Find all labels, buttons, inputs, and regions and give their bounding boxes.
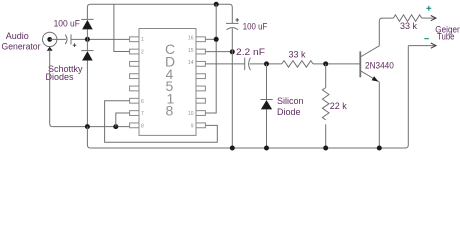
- label 100 uF (C1): [54, 19, 81, 29]
- junction dot diode column on inner rail: [85, 124, 90, 129]
- schottky diode D1 (upper) triangle: [82, 20, 93, 30]
- svg-text:8: 8: [141, 124, 144, 130]
- svg-text:Diode: Diode: [277, 107, 301, 117]
- svg-text:100 uF: 100 uF: [54, 19, 81, 29]
- junction dot top rail: [214, 2, 219, 7]
- label 2N3440: [365, 61, 394, 71]
- wire D2 anode down to inner ground rail: [86, 61, 88, 127]
- node C junction dot: [323, 61, 328, 66]
- svg-text:2.2 nF: 2.2 nF: [236, 47, 266, 57]
- svg-text:7: 7: [141, 111, 144, 117]
- wire minus output arrow: [408, 45, 435, 47]
- svg-text:Audio: Audio: [6, 31, 29, 41]
- resistor R1 33k zigzag: [282, 61, 313, 68]
- wire C3 to node B: [250, 63, 282, 65]
- svg-text:Tube: Tube: [437, 32, 455, 42]
- IC U1 designator text CD4518: [165, 41, 175, 119]
- IC U1 CD4518 body: [139, 29, 196, 136]
- minus output arrowhead: [431, 43, 436, 48]
- wire generator to C1: [50, 38, 66, 40]
- wire D3 anode to ground rail: [266, 109, 268, 148]
- junction dot pin7 drop on inner rail: [113, 124, 118, 129]
- wire pin 14 to C3: [205, 63, 244, 65]
- wire generator ground down: [50, 50, 53, 127]
- plus sign output (teal): [426, 6, 431, 11]
- wire R3 to plus output arrow: [422, 17, 436, 19]
- transistor Q1 emitter arrowhead: [372, 76, 379, 81]
- label Silicon Diode: [277, 96, 304, 117]
- svg-text:14: 14: [188, 60, 194, 66]
- resistor R3 33k zigzag: [393, 15, 421, 22]
- wire inner ground rail to pin 8: [53, 126, 130, 128]
- generator center terminal dot: [47, 37, 52, 42]
- svg-text:16: 16: [188, 36, 194, 42]
- label 22 k (R2): [330, 101, 348, 111]
- junction dot R2 on ground rail: [323, 146, 328, 151]
- wire emitter down to ground rail: [378, 82, 380, 148]
- junction dot pin15 reset: [230, 49, 235, 54]
- svg-text:2N3440: 2N3440: [365, 61, 394, 71]
- svg-text:6: 6: [141, 99, 144, 105]
- wire C1 to node A and pin1: [71, 38, 130, 40]
- svg-text:Silicon: Silicon: [277, 96, 304, 106]
- capacitor C1 100uF straight plate: [70, 34, 72, 44]
- label Geiger Tube: [435, 25, 459, 42]
- capacitor C3 2.2nF straight plate: [244, 58, 246, 70]
- transistor Q1 emitter stroke: [360, 71, 379, 82]
- wire R1 to node C and base: [313, 63, 360, 65]
- silicon diode D3 cathode bar: [261, 99, 273, 101]
- transistor Q1 base bar: [359, 51, 361, 77]
- wire collector up to R3: [379, 18, 393, 46]
- svg-text:10: 10: [188, 111, 194, 117]
- label 2.2 nF: [236, 47, 266, 57]
- svg-text:15: 15: [188, 48, 194, 54]
- capacitor C3 2.2nF curved plate: [249, 58, 251, 70]
- audio generator connector J1: [43, 32, 57, 46]
- wire pin 16 to V+ drop: [205, 38, 216, 40]
- silicon diode D3 triangle: [261, 100, 272, 109]
- IC U1 left pins 1-8: [130, 37, 139, 128]
- svg-text:9: 9: [191, 124, 194, 130]
- wire diode column to outer ground rail: [87, 127, 90, 148]
- pin number labels left: [141, 37, 144, 129]
- svg-text:1: 1: [141, 37, 144, 43]
- IC U1 right pins 16-9: [196, 37, 205, 128]
- capacitor C1 100uF curved plate: [65, 35, 67, 44]
- wire R2 to ground rail: [325, 124, 327, 148]
- pin number labels right: [188, 36, 194, 130]
- node B junction dot: [264, 61, 269, 66]
- resistor R2 22k lead from node C: [325, 64, 327, 88]
- capacitor C2 plus sign: [235, 18, 239, 22]
- label 100 uF (C2): [243, 22, 268, 32]
- junction dot emitter on ground rail: [377, 146, 382, 151]
- label 33 k (R3): [400, 21, 418, 31]
- wire D1 anode to node A to D2: [86, 29, 88, 50]
- wire VDD drop to pin 2: [114, 4, 130, 51]
- svg-text:Generator: Generator: [2, 42, 41, 52]
- capacitor C2 100uF curved plate: [227, 28, 239, 30]
- schottky diode D2 (lower) cathode bar: [81, 50, 93, 52]
- junction dot D3 on ground rail: [264, 146, 269, 151]
- resistor R2 22k zigzag: [322, 88, 329, 120]
- schottky diode D2 (lower) triangle: [82, 51, 93, 60]
- schottky diode D1 (upper) cathode bar: [81, 18, 93, 20]
- generator ground arrow: [47, 47, 53, 51]
- wire pin 7 to inner rail: [116, 113, 130, 127]
- wire C2 bottom to outer ground rail: [231, 28, 233, 148]
- label 33 k (R1): [289, 50, 307, 60]
- wire top rail V+: [87, 4, 232, 23]
- label Audio Generator: [2, 31, 41, 52]
- plus output arrowhead: [431, 16, 436, 21]
- wire V+ drop to pin 10: [205, 4, 216, 113]
- silicon diode D3 lead from node B: [266, 64, 268, 100]
- label Schottky Diodes: [46, 64, 84, 82]
- svg-text:2: 2: [141, 50, 144, 56]
- transistor Q1 collector stroke: [360, 46, 379, 57]
- wire pin 15 to ground column: [205, 51, 232, 53]
- capacitor C2 100uF straight plate: [226, 22, 239, 24]
- svg-text:33 k: 33 k: [400, 21, 418, 31]
- minus sign output (teal): [424, 38, 429, 40]
- node A junction dot: [85, 37, 90, 42]
- svg-text:33 k: 33 k: [289, 50, 307, 60]
- junction dot ground column on rail: [230, 146, 235, 151]
- svg-text:22 k: 22 k: [330, 101, 348, 111]
- svg-text:100 uF: 100 uF: [243, 22, 268, 32]
- svg-text:8: 8: [166, 103, 174, 119]
- capacitor C1 plus sign: [73, 43, 77, 47]
- wire pin 6 wrap to pin 9: [105, 101, 218, 142]
- junction dot pin16 VDD: [214, 37, 219, 42]
- outer ground rail: [90, 46, 408, 148]
